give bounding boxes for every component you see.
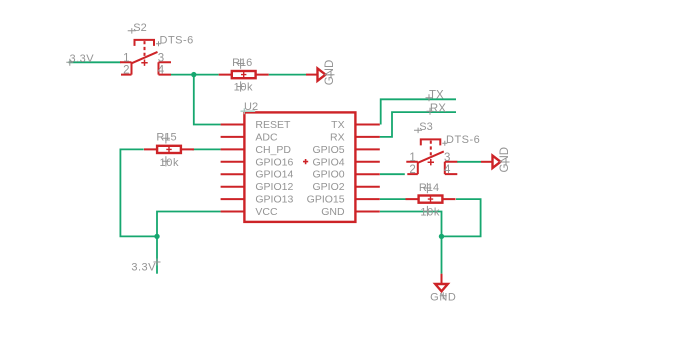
svg-text:10k: 10k: [160, 157, 180, 169]
svg-text:RESET: RESET: [255, 119, 291, 131]
svg-text:10k: 10k: [420, 207, 440, 219]
svg-text:2: 2: [409, 164, 415, 176]
svg-text:VCC: VCC: [255, 206, 278, 218]
svg-text:GPIO0: GPIO0: [312, 169, 344, 181]
svg-text:S3: S3: [419, 121, 432, 133]
svg-text:3.3V: 3.3V: [131, 262, 156, 274]
svg-text:GPIO2: GPIO2: [312, 181, 344, 193]
svg-text:TX: TX: [429, 90, 444, 102]
svg-text:RX: RX: [430, 103, 446, 115]
svg-text:R15: R15: [156, 132, 176, 144]
svg-text:DTS-6: DTS-6: [446, 134, 480, 146]
svg-text:GPIO13: GPIO13: [255, 194, 293, 206]
svg-text:3.3V: 3.3V: [70, 53, 95, 65]
svg-text:2: 2: [123, 65, 129, 77]
svg-text:3: 3: [444, 152, 450, 164]
svg-text:R16: R16: [232, 57, 252, 69]
svg-text:RX: RX: [330, 131, 345, 143]
svg-text:GPIO16: GPIO16: [255, 156, 293, 168]
svg-text:GPIO5: GPIO5: [312, 144, 344, 156]
svg-text:ADC: ADC: [255, 131, 278, 143]
svg-text:S2: S2: [133, 22, 146, 34]
svg-text:3: 3: [158, 52, 164, 64]
svg-text:GPIO12: GPIO12: [255, 181, 293, 193]
svg-text:CH_PD: CH_PD: [255, 144, 291, 156]
svg-text:DTS-6: DTS-6: [160, 35, 194, 47]
svg-text:1: 1: [123, 52, 129, 64]
svg-text:TX: TX: [331, 119, 344, 131]
svg-text:GPIO4: GPIO4: [312, 156, 344, 168]
svg-text:1: 1: [409, 152, 415, 164]
svg-text:GPIO15: GPIO15: [307, 194, 345, 206]
svg-text:R14: R14: [419, 182, 439, 194]
svg-text:GND: GND: [321, 206, 345, 218]
svg-text:4: 4: [158, 65, 165, 77]
svg-text:GPIO14: GPIO14: [255, 169, 293, 181]
svg-text:4: 4: [444, 164, 451, 176]
svg-text:10k: 10k: [234, 81, 254, 93]
